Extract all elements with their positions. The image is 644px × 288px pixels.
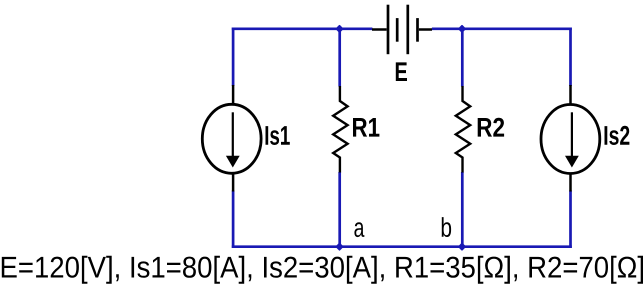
current source Is2 arrowhead <box>565 156 579 168</box>
resistor R2 <box>456 86 470 173</box>
node junction dot top-right <box>459 26 465 32</box>
node a junction dot <box>336 244 342 250</box>
label R2 <box>478 118 504 137</box>
wire right vertical upper <box>569 28 572 87</box>
label R1 <box>353 118 379 137</box>
node b label <box>442 217 451 237</box>
wire left vertical lower <box>232 191 235 249</box>
label Is2 <box>605 126 630 145</box>
wire R1 branch upper <box>338 29 341 87</box>
current source Is1 <box>202 85 261 192</box>
current source Is2 <box>541 85 600 192</box>
node b junction dot <box>459 244 465 250</box>
wire bottom horizontal <box>232 245 572 248</box>
wire left vertical upper <box>232 28 235 87</box>
wire top-right horizontal (battery to right corner) <box>432 27 572 30</box>
wire right vertical lower <box>569 191 572 249</box>
resistor R1 <box>333 86 347 173</box>
wire R2 branch upper <box>461 29 464 87</box>
node a label <box>354 222 364 237</box>
label E <box>396 62 407 81</box>
wire R1 branch lower <box>338 172 341 247</box>
battery E symbol <box>372 5 432 55</box>
values caption text <box>2 256 643 284</box>
current source Is1 arrowhead <box>226 156 240 168</box>
node junction dot top-left <box>336 26 342 32</box>
label Is1 <box>266 126 290 145</box>
wire R2 branch lower <box>461 172 464 247</box>
wire top-left horizontal (corner to battery) <box>232 27 373 30</box>
